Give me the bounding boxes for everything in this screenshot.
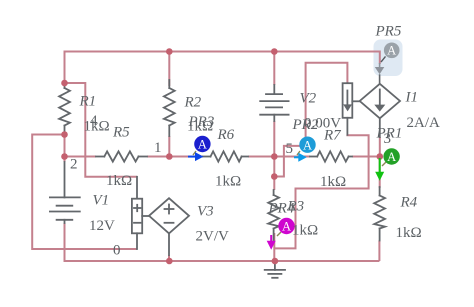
svg-text:A: A: [387, 44, 396, 58]
battery V2: [260, 85, 288, 121]
svg-text:3: 3: [384, 131, 392, 147]
wire I1 sense bottom loop to R3 bottom: [274, 135, 369, 249]
vcvs U-rect V3: [132, 177, 149, 249]
wire node1 to R6: [169, 156, 203, 158]
node dot 2: [61, 153, 68, 160]
svg-text:12V: 12V: [89, 218, 115, 234]
svg-text:A: A: [387, 150, 396, 164]
wire V2 bottom to node5: [273, 121, 275, 157]
svg-text:2V/V: 2V/V: [196, 229, 230, 245]
svg-text:A: A: [303, 138, 312, 152]
node dot top of R1 (node 4): [61, 80, 68, 87]
svg-text:0: 0: [113, 243, 121, 259]
svg-text:1kΩ: 1kΩ: [292, 223, 318, 239]
node dot V3 bottom rail: [166, 258, 173, 265]
probe PR3: [188, 136, 211, 161]
svg-text:R1: R1: [79, 94, 97, 110]
vcvs diamond V3: [149, 198, 189, 255]
svg-text:4: 4: [90, 113, 98, 129]
resistor R6: [203, 151, 248, 161]
svg-text:1kΩ: 1kΩ: [396, 225, 422, 241]
wire R1 bottom to left loop to V3 control minus: [32, 135, 137, 250]
resistor R3: [268, 190, 279, 240]
svg-text:2: 2: [70, 157, 78, 173]
wire R4 bottom to rail: [378, 241, 380, 262]
svg-text:A: A: [282, 220, 291, 234]
wire V2 top from rail: [273, 52, 275, 86]
wire R1 bottom to node 2: [64, 135, 66, 157]
svg-text:PR3: PR3: [188, 114, 215, 130]
wire R3 bottom to rail: [273, 233, 275, 261]
svg-text:R5: R5: [112, 125, 130, 141]
svg-text:1kΩ: 1kΩ: [106, 173, 132, 189]
wire node3 to R4 (under green arrow): [379, 157, 381, 189]
resistor R2: [164, 80, 175, 136]
svg-text:1kΩ: 1kΩ: [320, 174, 346, 190]
svg-text:I1: I1: [405, 90, 419, 106]
node dot R3 bottom rail: [272, 258, 279, 265]
wire PR2 loop top: [306, 63, 348, 137]
svg-text:R3: R3: [287, 199, 305, 215]
node dot bottom of R1: [61, 131, 68, 138]
wire V3 diamond bottom to rail: [168, 255, 170, 261]
probe PR5 background box: [374, 40, 403, 77]
svg-text:PR5: PR5: [375, 24, 402, 40]
wire R2 bottom to node 1: [168, 136, 170, 157]
wire R6 to node5: [248, 156, 274, 158]
probe PR4: [267, 218, 295, 250]
node dot 1: [166, 153, 173, 160]
wire top rail: [65, 52, 380, 84]
wire rail to R2 top: [168, 52, 170, 87]
probe PR1: [375, 148, 400, 180]
svg-text:R7: R7: [323, 128, 342, 144]
svg-text:V2: V2: [300, 91, 317, 107]
ground: [265, 261, 285, 278]
resistor R1: [59, 83, 70, 135]
svg-text:1kΩ: 1kΩ: [215, 174, 241, 190]
node dot 5: [271, 153, 278, 160]
probe PR2: [294, 137, 316, 162]
resistor R4: [374, 187, 385, 241]
svg-text:5: 5: [286, 141, 294, 157]
probe PR5 pointer: [375, 43, 400, 85]
components gray: [50, 80, 400, 278]
wire V1 bottom to ground rail: [65, 223, 380, 261]
svg-text:2A/A: 2A/A: [407, 115, 441, 131]
cccs diamond I1: [360, 84, 400, 137]
resistor R7: [310, 151, 352, 161]
wire node5 down to R3: [273, 157, 275, 191]
wire R7 to node3: [352, 156, 380, 158]
node dot rail R2: [166, 48, 173, 55]
wire node4 tap to V3 control plus: [65, 83, 138, 177]
svg-text:A: A: [198, 138, 207, 152]
wire node2 to R5: [65, 156, 97, 158]
svg-text:V3: V3: [197, 204, 214, 220]
resistor R5: [96, 151, 147, 161]
svg-text:1: 1: [154, 140, 162, 156]
wire I1 output bottom to node3: [379, 137, 381, 157]
svg-text:R4: R4: [400, 195, 418, 211]
node dot 5b: [271, 173, 278, 180]
node dot rail V2: [271, 48, 278, 55]
svg-text:PR2: PR2: [292, 117, 319, 133]
wire node5b right-up to PR2 circle: [274, 146, 300, 177]
wire node5 to R7: [274, 156, 310, 158]
svg-text:V1: V1: [93, 193, 110, 209]
node dot 3: [377, 153, 384, 160]
svg-text:R2: R2: [184, 95, 202, 111]
wire R5 to node1: [147, 156, 169, 158]
svg-text:R6: R6: [217, 127, 235, 143]
wire V1 top: [64, 157, 66, 163]
cccs sense rect I1: [343, 83, 360, 135]
battery V1: [50, 162, 80, 223]
